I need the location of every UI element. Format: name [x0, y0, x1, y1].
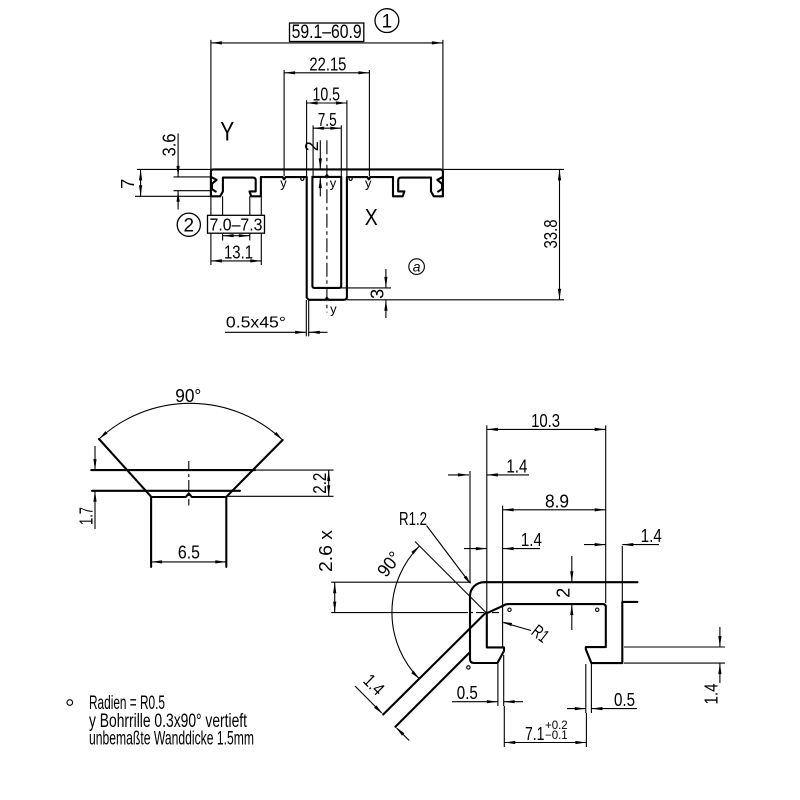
2.2 dim	[328, 470, 330, 496]
1.7 dim	[94, 446, 96, 470]
ext lines for 13.1 (below feet)	[210, 196, 212, 265]
dim 22.15	[284, 71, 295, 74]
svg-text:1.4: 1.4	[506, 455, 527, 476]
dim 7.5	[312, 125, 314, 176]
channel interior	[312, 177, 341, 288]
90 deg arc	[99, 403, 283, 440]
0.5 left	[487, 700, 498, 703]
svg-text:1.4: 1.4	[641, 525, 662, 546]
dim 7 (x=140.6, 169.4..196.3 inside)	[139, 169, 142, 180]
R1.2 leader	[427, 526, 470, 583]
1.4 #3	[621, 546, 623, 601]
svg-text:2: 2	[301, 141, 322, 151]
svg-text:2: 2	[184, 216, 195, 237]
0.5 right	[585, 664, 587, 713]
right zigzag notch	[437, 177, 442, 191]
10.3	[486, 425, 488, 612]
svg-text:10.3: 10.3	[531, 410, 560, 431]
svg-text:2.6 x: 2.6 x	[315, 529, 336, 572]
svg-text:7: 7	[117, 179, 138, 189]
10.3	[487, 428, 498, 431]
svg-text:59.1–60.9: 59.1–60.9	[292, 22, 362, 43]
dim 3 (bottom wall) outside arrows	[384, 277, 387, 288]
svg-text:8.9: 8.9	[545, 490, 569, 511]
1.4 #2	[464, 548, 487, 550]
chamfer 0.5x45	[305, 300, 307, 336]
dim 3.6 (x=178.1 outside arrows)	[177, 133, 179, 177]
2 dim	[571, 556, 573, 582]
right T-slot	[393, 177, 443, 196]
1.7 dim	[93, 459, 96, 470]
1.4 #3	[595, 543, 606, 546]
90 deg arc	[99, 431, 108, 439]
svg-text:3: 3	[366, 289, 387, 299]
dim 2 (top wall)	[319, 158, 322, 169]
dim 7.0-7.3 arrows	[222, 196, 224, 240]
section: COUNTERSINK DETAIL (bottom-left)	[91, 469, 151, 471]
6.5 dim	[151, 560, 162, 563]
centerline	[326, 140, 328, 312]
1.4 #2	[476, 547, 487, 550]
8.9	[502, 506, 504, 649]
dim 7.0-7.3 arrows	[223, 234, 234, 237]
R1 leader	[504, 623, 532, 631]
R1 leader	[502, 622, 512, 626]
inner surface right-mid with groove at 368.8	[347, 177, 393, 179]
2.6 x dim	[334, 582, 336, 612]
svg-text:2.2: 2.2	[309, 473, 330, 494]
dim 33.8	[443, 168, 564, 170]
inner surface left-mid with groove V at 284	[261, 177, 307, 179]
svg-text:0.5: 0.5	[614, 689, 635, 710]
svg-text:1.7: 1.7	[76, 507, 97, 525]
svg-text:Y: Y	[220, 116, 234, 146]
7.1	[503, 706, 505, 747]
dim 3 (bottom wall) outside arrows	[341, 287, 391, 289]
big dim 59.1-60.9	[211, 41, 222, 44]
dim 2 (top wall)	[319, 140, 321, 169]
thin ext of top surface to the left + vertex line	[331, 581, 471, 583]
svg-text:X: X	[365, 204, 378, 230]
svg-text:6.5: 6.5	[178, 541, 200, 562]
90deg arc + arm	[411, 546, 419, 554]
dim 3.6 (x=178.1 outside arrows)	[177, 166, 180, 177]
6.5 dim	[151, 561, 226, 563]
2.2 dim	[327, 470, 330, 481]
svg-text:1: 1	[382, 11, 393, 32]
svg-text:y: y	[280, 176, 287, 191]
dim 7 (x=140.6, 169.4..196.3 inside)	[140, 169, 142, 196]
circles	[508, 608, 511, 611]
dim 33.8	[558, 169, 561, 180]
svg-text:7.0–7.3: 7.0–7.3	[210, 214, 263, 234]
svg-text:R1.2: R1.2	[399, 508, 427, 529]
svg-text:33.8: 33.8	[540, 220, 561, 249]
ext lines for 13.1 (below feet)	[211, 259, 222, 262]
dim 10.5	[307, 101, 318, 104]
R1.2 leader	[464, 576, 471, 585]
dim 7.5	[313, 127, 324, 130]
svg-text:0.5x45°: 0.5x45°	[226, 315, 286, 332]
section: COUNTERSINK DETAIL (bottom-left)	[255, 469, 334, 471]
svg-text:y: y	[330, 302, 337, 317]
svg-text:−0.1: −0.1	[545, 730, 568, 742]
svg-text:7.1: 7.1	[525, 723, 545, 744]
dim 22.15	[283, 70, 285, 176]
8.9	[503, 508, 514, 511]
1.4 #1	[458, 473, 469, 476]
section: NOTES (bottom-left)	[67, 700, 73, 706]
diagonal 1.4 wall thickness dim	[374, 705, 383, 714]
1.4 #1	[469, 471, 471, 582]
thick outline	[484, 581, 637, 583]
chamfer 0.5x45	[295, 331, 306, 334]
0.5 left	[497, 664, 499, 706]
interior top line with small groove	[312, 175, 341, 177]
svg-text:3.6: 3.6	[159, 134, 180, 157]
top plate outline with rounded top corners	[211, 169, 443, 196]
channel outer: left wall, chamfer, bottom (with groove), rounded right corner, right wall	[307, 177, 347, 300]
0.5 right	[575, 707, 586, 710]
svg-text:90°: 90°	[175, 385, 201, 406]
svg-text:1.4: 1.4	[700, 684, 721, 705]
90deg arc + arm	[415, 542, 486, 613]
boxes (draw after lines to mask)	[290, 23, 364, 42]
svg-text:1.4: 1.4	[521, 529, 542, 550]
radius-mark circles	[301, 177, 304, 180]
svg-text:2: 2	[552, 588, 573, 598]
dim 10.5	[306, 100, 308, 177]
diagonal 1.4 wall thickness dim	[355, 686, 382, 713]
svg-text:unbemaßte Wanddicke 1.5mm: unbemaßte Wanddicke 1.5mm	[89, 729, 254, 750]
left zigzag notch (inner face of left leg)	[212, 177, 217, 191]
left extension lines	[137, 168, 211, 170]
big dim 59.1-60.9	[210, 40, 212, 169]
svg-text:13.1: 13.1	[224, 241, 253, 262]
svg-text:10.5: 10.5	[313, 84, 341, 105]
1.4 #4 right	[624, 646, 725, 648]
left foot bottom + chamfer + mouth left face + cavity top + wall + step + lip + foot + right face	[211, 177, 261, 196]
2 dim	[570, 571, 573, 582]
svg-text:y: y	[365, 176, 372, 191]
svg-text:a: a	[413, 259, 421, 275]
2.6 x dim	[333, 582, 336, 593]
1.4 #4 right	[718, 636, 721, 647]
svg-text:7.5: 7.5	[318, 109, 337, 130]
7.1	[504, 741, 515, 744]
svg-text:22.15: 22.15	[309, 53, 346, 74]
wall slant lines	[383, 613, 486, 715]
svg-text:y: y	[330, 176, 337, 191]
svg-text:0.5: 0.5	[457, 682, 478, 703]
